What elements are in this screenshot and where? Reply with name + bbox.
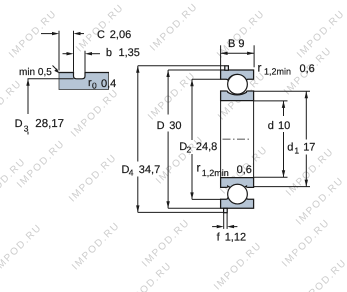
svg-text:4: 4 — [129, 167, 134, 177]
svg-text:1,2min: 1,2min — [264, 66, 291, 76]
svg-text:b: b — [106, 47, 112, 59]
svg-text:0,6: 0,6 — [300, 63, 315, 75]
bore edge left — [220, 101, 222, 178]
svg-text:1,12: 1,12 — [225, 232, 246, 244]
svg-text:r: r — [197, 160, 201, 174]
dimension d1 extension bottom — [254, 186, 310, 188]
svg-text:30: 30 — [169, 120, 181, 132]
upper snap ring — [225, 66, 229, 70]
dimension C extension line (face) — [58, 31, 60, 71]
lower inner ring — [221, 178, 254, 189]
svg-text:1: 1 — [294, 145, 299, 155]
svg-text:3: 3 — [24, 123, 29, 133]
dimension D2 line — [191, 79, 193, 140]
svg-text:24,8: 24,8 — [196, 141, 217, 153]
upper ball — [228, 74, 248, 94]
dimension C extension line (groove left) — [73, 31, 75, 72]
svg-text:1,2min: 1,2min — [202, 168, 229, 178]
dimension B line + arrows — [221, 52, 255, 54]
dimension D3 line + arrow — [27, 79, 29, 114]
dimension d extension bottom — [254, 176, 288, 178]
bore edge right — [253, 101, 255, 178]
dimension D4 extension top — [138, 65, 225, 67]
lower snap ring — [224, 208, 228, 212]
dimension D2 extension bottom — [192, 198, 221, 200]
dimension C line + arrows — [41, 33, 52, 35]
svg-text:2,06: 2,06 — [110, 29, 131, 41]
centerline — [223, 138, 252, 140]
upper outer ring — [221, 70, 254, 81]
dimension D line — [167, 70, 169, 115]
svg-text:D: D — [157, 120, 165, 132]
upper inner ring — [221, 91, 254, 101]
svg-text:0,6: 0,6 — [237, 164, 252, 176]
dimension d1 extension top — [254, 90, 310, 92]
dimension D2 extension top — [192, 78, 221, 80]
svg-text:d: d — [268, 120, 274, 132]
svg-text:0,4: 0,4 — [101, 78, 116, 90]
svg-text:34,7: 34,7 — [139, 164, 160, 176]
svg-text:B 9: B 9 — [228, 38, 245, 50]
svg-text:10: 10 — [278, 120, 290, 132]
dimension d extension top — [254, 100, 288, 102]
lower ball — [228, 184, 248, 204]
detail top surface line left — [59, 72, 74, 74]
dimension D4 line — [137, 66, 139, 162]
dimension D extension top — [168, 69, 221, 71]
svg-text:17: 17 — [303, 142, 315, 154]
svg-text:d: d — [287, 142, 293, 154]
min 0,5 leader — [53, 66, 57, 70]
dimension B extension lines — [220, 45, 222, 70]
svg-text:C: C — [97, 29, 105, 41]
svg-text:28,17: 28,17 — [35, 118, 64, 130]
dimension D3 extension line (groove bottom) — [28, 78, 74, 80]
dimension b extension line (groove right) — [84, 51, 86, 72]
lower outer ring — [221, 192, 254, 209]
svg-text:min 0,5: min 0,5 — [19, 67, 52, 78]
detail top surface line right — [85, 72, 109, 74]
svg-text:0: 0 — [92, 81, 97, 91]
detail ring section body — [59, 73, 109, 90]
svg-text:r: r — [258, 61, 262, 75]
svg-text:2: 2 — [187, 145, 192, 155]
dimension f extension lines — [223, 213, 225, 229]
svg-text:D: D — [15, 118, 23, 130]
dimension f line + arrows — [212, 226, 217, 228]
dimension D4 extension bottom — [138, 211, 224, 213]
dimension d line — [283, 101, 285, 116]
svg-text:1,35: 1,35 — [119, 47, 140, 59]
dimension D extension bottom — [168, 207, 221, 209]
dimension d1 line — [305, 91, 307, 139]
groove slot — [74, 72, 86, 79]
dimension b line + arrows — [63, 53, 67, 55]
